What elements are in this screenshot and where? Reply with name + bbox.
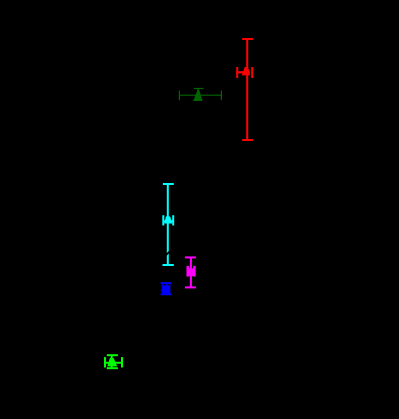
green data point: horizontal error bar line bbox=[105, 362, 122, 364]
red data point: right error cap bbox=[251, 67, 253, 78]
cyan data point: bottom error cap bbox=[163, 264, 174, 266]
red data point: filled triangle marker bbox=[242, 67, 250, 76]
blue data point: gap dot left bbox=[163, 284, 165, 285]
blue data point: top error cap bbox=[161, 282, 172, 284]
green data point: bottom error cap bbox=[107, 367, 118, 369]
red data point: bottom error cap bbox=[242, 139, 253, 141]
magenta data point: right error cap bbox=[193, 266, 196, 277]
green data point: vertical error bar line bbox=[111, 355, 113, 368]
dark green data point: top error cap bbox=[194, 88, 204, 90]
dark green data point: right error cap bbox=[220, 91, 222, 101]
magenta data point: vertical error bar line bbox=[190, 257, 192, 287]
dark green data point: bottom error cap bbox=[193, 99, 202, 101]
magenta data point: top error cap bbox=[185, 256, 196, 258]
magenta data point: bottom error cap bbox=[185, 286, 196, 288]
dark green data point: vertical error bar line bbox=[197, 89, 199, 101]
dark green data point: filled triangle marker bbox=[193, 90, 202, 101]
cyan data point: notch gap in error bar bbox=[166, 252, 169, 255]
cyan data point: filled triangle marker bbox=[164, 216, 172, 223]
dark green data point: left error cap bbox=[178, 91, 180, 101]
green data point: right error cap bbox=[121, 357, 123, 367]
blue data point: filled square marker bbox=[162, 284, 171, 293]
red data point: vertical error bar line bbox=[246, 39, 248, 140]
green data point: filled triangle marker bbox=[107, 358, 117, 366]
blue data point: left edge protrusion of second marker bbox=[161, 290, 162, 292]
cyan data point: right error cap bbox=[172, 215, 174, 225]
magenta data point: left error cap bbox=[186, 266, 189, 277]
magenta data point: filled square marker bbox=[187, 268, 195, 276]
cyan data point: horizontal error bar line bbox=[163, 220, 173, 222]
dark green data point: horizontal error bar line bbox=[179, 94, 221, 96]
cyan data point: left error cap bbox=[162, 215, 164, 225]
cyan data point: vertical error bar line bbox=[167, 184, 169, 265]
red data point: horizontal error bar line bbox=[236, 71, 250, 73]
green data point: top error cap bbox=[107, 354, 118, 356]
blue data point: bottom error cap bbox=[161, 293, 172, 295]
red data point: left error cap bbox=[236, 67, 238, 78]
green data point: left error cap bbox=[104, 357, 106, 367]
blue data point: gap dot right bbox=[168, 284, 170, 285]
cyan data point: top error cap bbox=[163, 183, 174, 185]
red data point: top error cap bbox=[242, 38, 253, 40]
